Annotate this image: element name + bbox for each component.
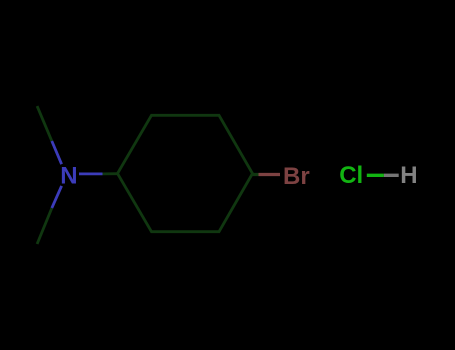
- bond ring to Br (bromine half): [259, 173, 281, 176]
- benzene ring C1-C6: [118, 115, 253, 231]
- bond Cl to H (hydrogen half): [384, 174, 399, 177]
- bond N to lower methyl (carbon half): [37, 208, 52, 244]
- bond N to ring (blue half): [79, 172, 103, 175]
- bond N to lower methyl (blue half): [52, 186, 62, 208]
- bond ring to Br (carbon half): [253, 173, 259, 176]
- bond Cl to H (chlorine half): [367, 174, 384, 177]
- svg-text:Br: Br: [283, 163, 310, 190]
- svg-text:Cl: Cl: [339, 162, 363, 189]
- bond N to ring (carbon half): [103, 172, 118, 175]
- bond N to upper methyl (carbon half): [37, 106, 52, 141]
- svg-text:H: H: [400, 162, 417, 189]
- bond N to upper methyl (blue half): [52, 141, 62, 164]
- svg-text:N: N: [60, 162, 77, 189]
